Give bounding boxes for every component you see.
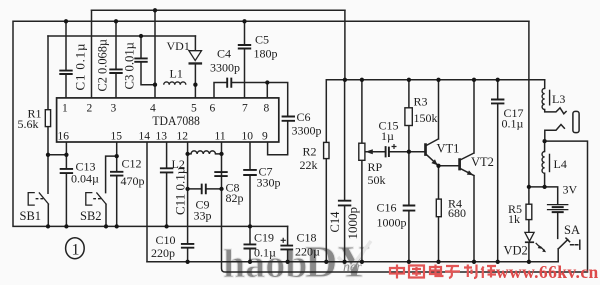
svg-text:7: 7 <box>242 102 248 114</box>
svg-text:1µ: 1µ <box>381 129 394 143</box>
svg-text:8: 8 <box>264 102 270 114</box>
svg-text:1k: 1k <box>508 212 520 226</box>
svg-text:4: 4 <box>150 102 156 114</box>
svg-text:C18: C18 <box>297 231 317 245</box>
svg-text:3300p: 3300p <box>292 124 322 138</box>
svg-text:R3: R3 <box>414 95 428 109</box>
svg-text:5.6k: 5.6k <box>18 117 39 131</box>
svg-text:2: 2 <box>87 102 93 114</box>
svg-text:C2 0.068µ: C2 0.068µ <box>96 39 110 92</box>
svg-text:C11 0.1µ: C11 0.1µ <box>173 166 188 215</box>
svg-text:R2: R2 <box>303 145 317 159</box>
svg-text:82p: 82p <box>226 191 244 205</box>
svg-text:15: 15 <box>111 130 123 142</box>
svg-text:C14: C14 <box>328 211 342 233</box>
svg-text:5: 5 <box>191 102 197 114</box>
svg-text:VD1: VD1 <box>167 39 190 53</box>
svg-text:VT1: VT1 <box>437 142 460 156</box>
svg-text:C5: C5 <box>255 33 269 47</box>
svg-text:3V: 3V <box>563 183 578 197</box>
svg-text:220µ: 220µ <box>295 245 320 259</box>
svg-text:13: 13 <box>156 130 168 142</box>
svg-text:0.1µ: 0.1µ <box>254 246 276 260</box>
svg-text:SA: SA <box>564 223 580 237</box>
svg-text:470p: 470p <box>121 174 145 188</box>
svg-text:330p: 330p <box>257 176 281 190</box>
svg-text:9: 9 <box>262 130 268 142</box>
svg-text:www.66kv.cn: www.66kv.cn <box>496 262 599 282</box>
svg-text:0.1µ: 0.1µ <box>502 117 524 131</box>
svg-text:14: 14 <box>139 130 151 142</box>
svg-text:680: 680 <box>448 206 466 220</box>
svg-text:C6: C6 <box>297 110 311 124</box>
svg-text:RP: RP <box>368 160 383 174</box>
svg-text:VT2: VT2 <box>471 155 494 169</box>
svg-text:150k: 150k <box>414 111 438 125</box>
svg-text:C16: C16 <box>377 201 397 215</box>
svg-text:C3 0.01µ: C3 0.01µ <box>123 42 137 90</box>
svg-text:1000p: 1000p <box>345 207 360 240</box>
svg-text:L1: L1 <box>170 67 183 81</box>
svg-text:L3: L3 <box>552 92 565 106</box>
svg-text:16: 16 <box>58 130 70 142</box>
svg-text:220p: 220p <box>151 246 175 260</box>
svg-text:180p: 180p <box>254 47 278 61</box>
svg-text:VD2: VD2 <box>504 244 528 258</box>
svg-text:C4: C4 <box>217 47 231 61</box>
svg-text:33p: 33p <box>194 209 212 223</box>
svg-text:50k: 50k <box>368 173 386 187</box>
svg-text:11: 11 <box>215 130 226 142</box>
svg-text:SB2: SB2 <box>80 209 102 223</box>
svg-text:1: 1 <box>62 102 68 114</box>
svg-text:1000p: 1000p <box>377 216 407 230</box>
svg-text:3300p: 3300p <box>210 61 240 75</box>
svg-text:3: 3 <box>111 102 117 114</box>
svg-text:12: 12 <box>177 130 189 142</box>
svg-text:TDA7088: TDA7088 <box>152 113 200 128</box>
svg-text:22k: 22k <box>300 158 318 172</box>
svg-text:C10: C10 <box>156 233 176 247</box>
svg-text:L2: L2 <box>172 157 185 171</box>
svg-text:1: 1 <box>72 242 80 259</box>
svg-text:0.04µ: 0.04µ <box>71 172 99 186</box>
svg-text:SB1: SB1 <box>20 209 42 223</box>
svg-text:10: 10 <box>242 130 254 142</box>
svg-text:C19: C19 <box>254 231 274 245</box>
svg-text:C1 0.1µ: C1 0.1µ <box>73 43 88 91</box>
svg-text:C12: C12 <box>122 157 142 171</box>
svg-text:L4: L4 <box>554 157 567 171</box>
svg-text:6: 6 <box>210 102 216 114</box>
